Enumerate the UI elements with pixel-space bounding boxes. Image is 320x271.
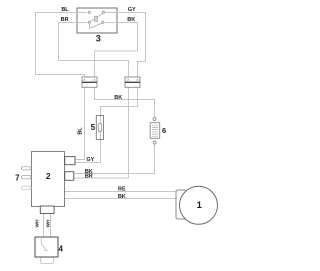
motor 1 tab: [176, 190, 187, 219]
svg-text:2: 2: [46, 171, 51, 181]
wire net BL: switch pin to connector A left pin to unit 2 upper tab: [36, 13, 88, 160]
fuse 5 body: [96, 116, 103, 140]
wire net BK: resistor 6 bottom to unit 2 lower tab: [74, 141, 155, 174]
connector A (inline connector below switch, left): [82, 77, 97, 87]
svg-text:3: 3: [96, 34, 101, 44]
switch 3 contact terminals: [88, 11, 104, 23]
svg-text:BK: BK: [118, 194, 126, 200]
svg-text:GY: GY: [86, 157, 94, 163]
unit 2 bottom tab: [40, 206, 54, 214]
motor 1 body: [180, 186, 218, 224]
svg-text:6: 6: [162, 126, 166, 135]
unit 2 upper right tab: [65, 157, 75, 165]
unit 2 left pin lugs (7): [21, 167, 31, 190]
switch 3 lever resistive element: [95, 16, 98, 21]
svg-text:RE: RE: [118, 186, 126, 192]
svg-text:BL: BL: [77, 127, 83, 135]
wire RE: unit 2 to motor 1: [65, 191, 177, 193]
unit 2 lower right tab: [65, 172, 74, 181]
svg-text:5: 5: [91, 123, 96, 132]
svg-text:WH: WH: [46, 219, 52, 228]
svg-text:BR: BR: [61, 17, 69, 23]
svg-text:BK: BK: [114, 95, 122, 101]
svg-text:WH: WH: [34, 219, 40, 228]
wire net BR: switch pin to connector B left pin down to unit 2 lower tab: [59, 23, 129, 179]
control unit 2 body: [32, 152, 65, 207]
svg-text:BR: BR: [85, 174, 93, 180]
switch 3 lever: [89, 13, 103, 28]
svg-text:4: 4: [58, 245, 63, 254]
svg-text:7: 7: [15, 173, 20, 182]
resistor 6 body: [150, 118, 160, 145]
svg-text:BK: BK: [127, 17, 135, 23]
ignition switch 3 body: [77, 8, 117, 33]
svg-text:BL: BL: [61, 7, 69, 13]
relay 4 body: [35, 237, 58, 264]
connector B (inline connector below switch, right): [125, 77, 140, 87]
svg-text:1: 1: [197, 200, 203, 211]
wire net BK: switch pin to connector A right pin, across to resistor 6 top: [95, 23, 155, 120]
wire BK: unit 2 to motor 1: [65, 198, 177, 200]
wire net GY: switch pin down right side to connector B right pin, through fuse 5 to unit 2 upper tab: [75, 13, 146, 163]
wire WH pair: unit 2 bottom tab to relay 4: [44, 214, 51, 238]
svg-text:GY: GY: [128, 7, 136, 13]
